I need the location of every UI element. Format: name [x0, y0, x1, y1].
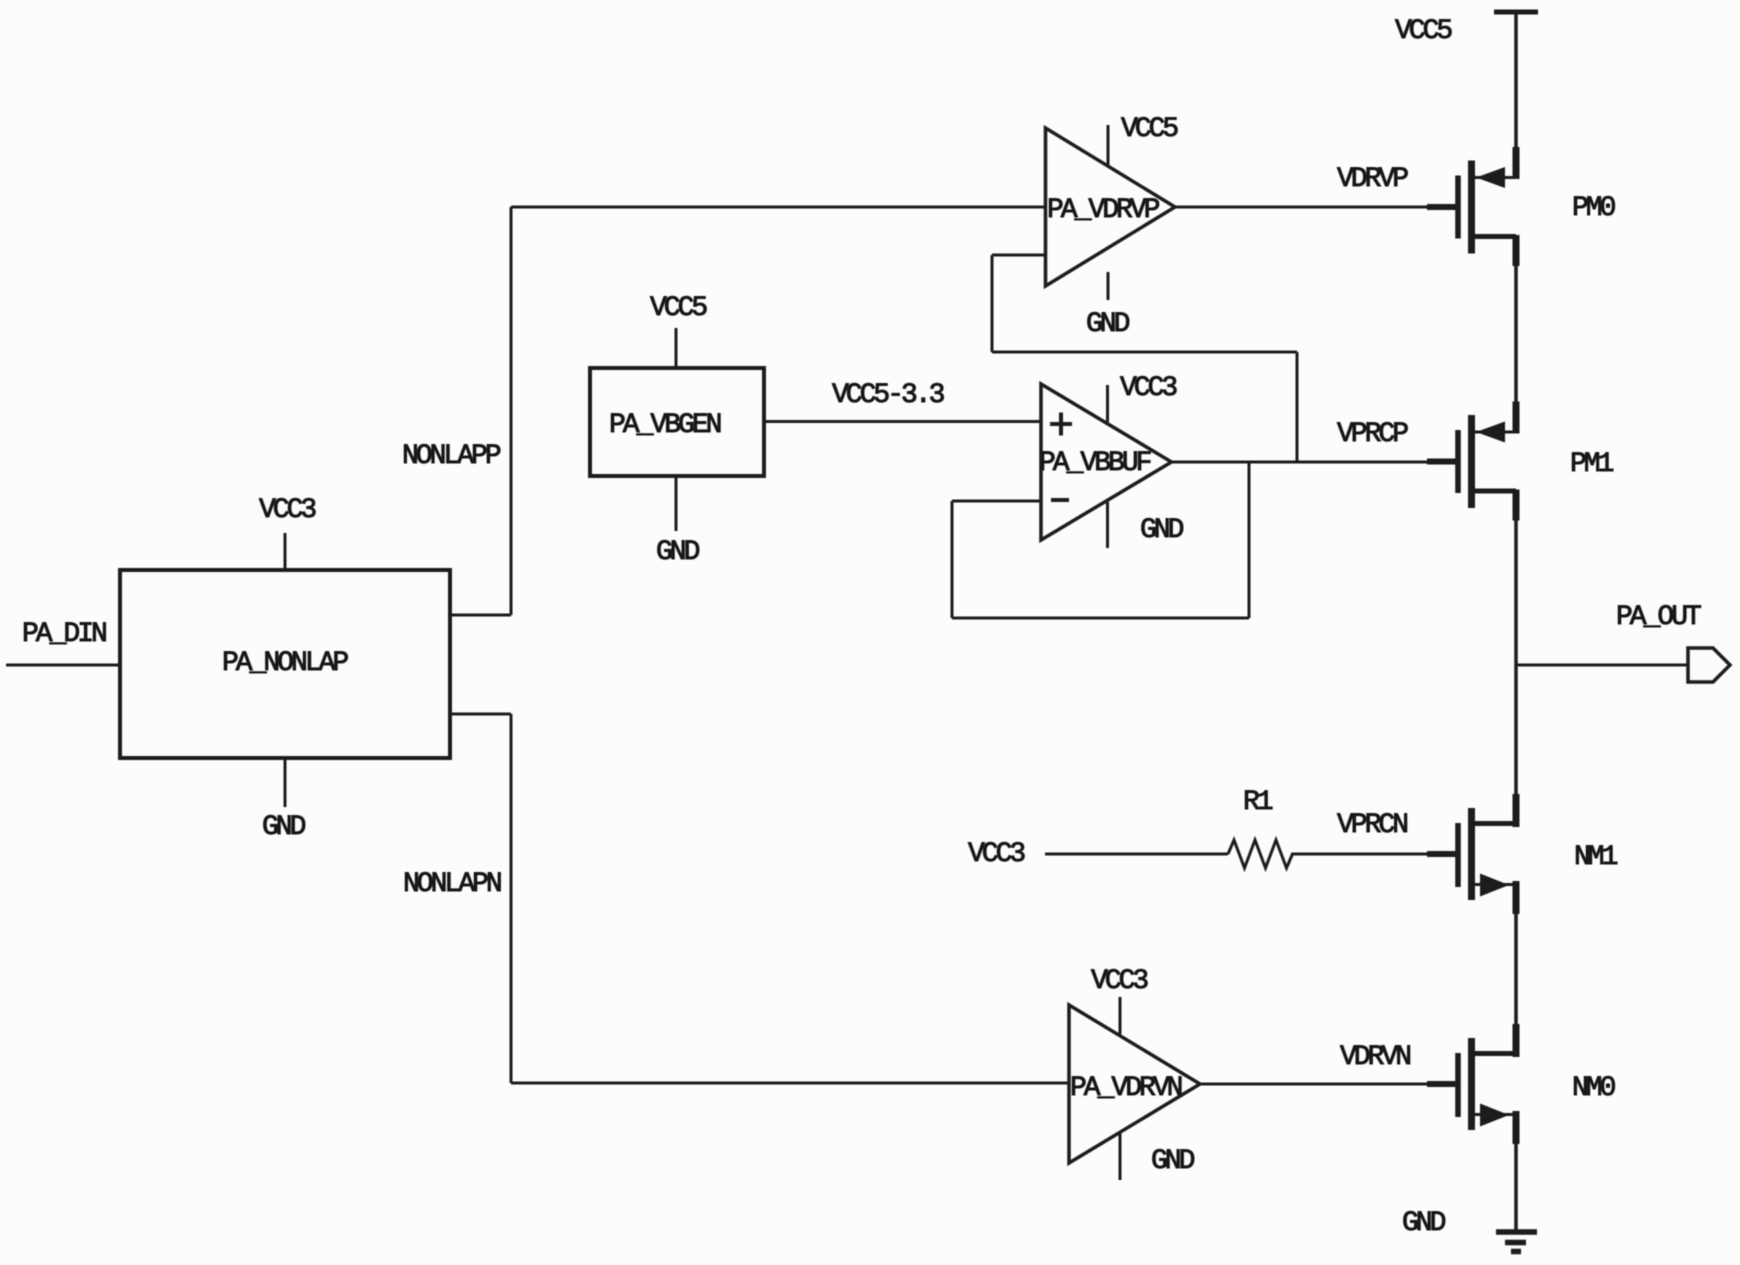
svg-text:VCC5-3.3: VCC5-3.3 [832, 380, 945, 411]
svg-text:NONLAPP: NONLAPP [402, 441, 501, 472]
svg-text:GND: GND [1151, 1146, 1195, 1177]
svg-text:VCC5: VCC5 [1121, 114, 1178, 145]
svg-text:VPRCN: VPRCN [1337, 810, 1407, 841]
svg-text:PA_VDRVN: PA_VDRVN [1070, 1073, 1182, 1104]
svg-text:PA_VBGEN: PA_VBGEN [609, 410, 721, 441]
svg-text:PA_OUT: PA_OUT [1616, 602, 1701, 633]
svg-text:PM0: PM0 [1572, 193, 1616, 224]
svg-text:PA_DIN: PA_DIN [22, 619, 106, 650]
svg-text:NM0: NM0 [1572, 1073, 1616, 1104]
svg-text:PM1: PM1 [1570, 449, 1614, 480]
svg-text:VPRCP: VPRCP [1337, 419, 1408, 450]
svg-text:VCC3: VCC3 [968, 839, 1025, 870]
svg-text:VDRVN: VDRVN [1340, 1042, 1410, 1073]
svg-text:VCC5: VCC5 [1395, 16, 1452, 47]
svg-text:VCC3: VCC3 [1120, 373, 1177, 404]
svg-text:NONLAPN: NONLAPN [403, 869, 501, 900]
svg-text:PA_VDRVP: PA_VDRVP [1047, 195, 1160, 226]
svg-text:PA_NONLAP: PA_NONLAP [222, 648, 348, 679]
svg-text:VCC3: VCC3 [259, 495, 316, 526]
svg-text:VCC3: VCC3 [1091, 966, 1148, 997]
svg-text:R1: R1 [1243, 787, 1273, 818]
svg-text:GND: GND [1402, 1208, 1446, 1239]
svg-text:GND: GND [656, 537, 700, 568]
svg-text:VDRVP: VDRVP [1337, 164, 1408, 195]
svg-text:GND: GND [262, 812, 306, 843]
svg-text:VCC5: VCC5 [650, 293, 707, 324]
svg-text:PA_VBBUF: PA_VBBUF [1039, 448, 1151, 479]
svg-text:GND: GND [1086, 309, 1130, 340]
svg-text:GND: GND [1140, 515, 1184, 546]
svg-text:NM1: NM1 [1574, 842, 1618, 873]
